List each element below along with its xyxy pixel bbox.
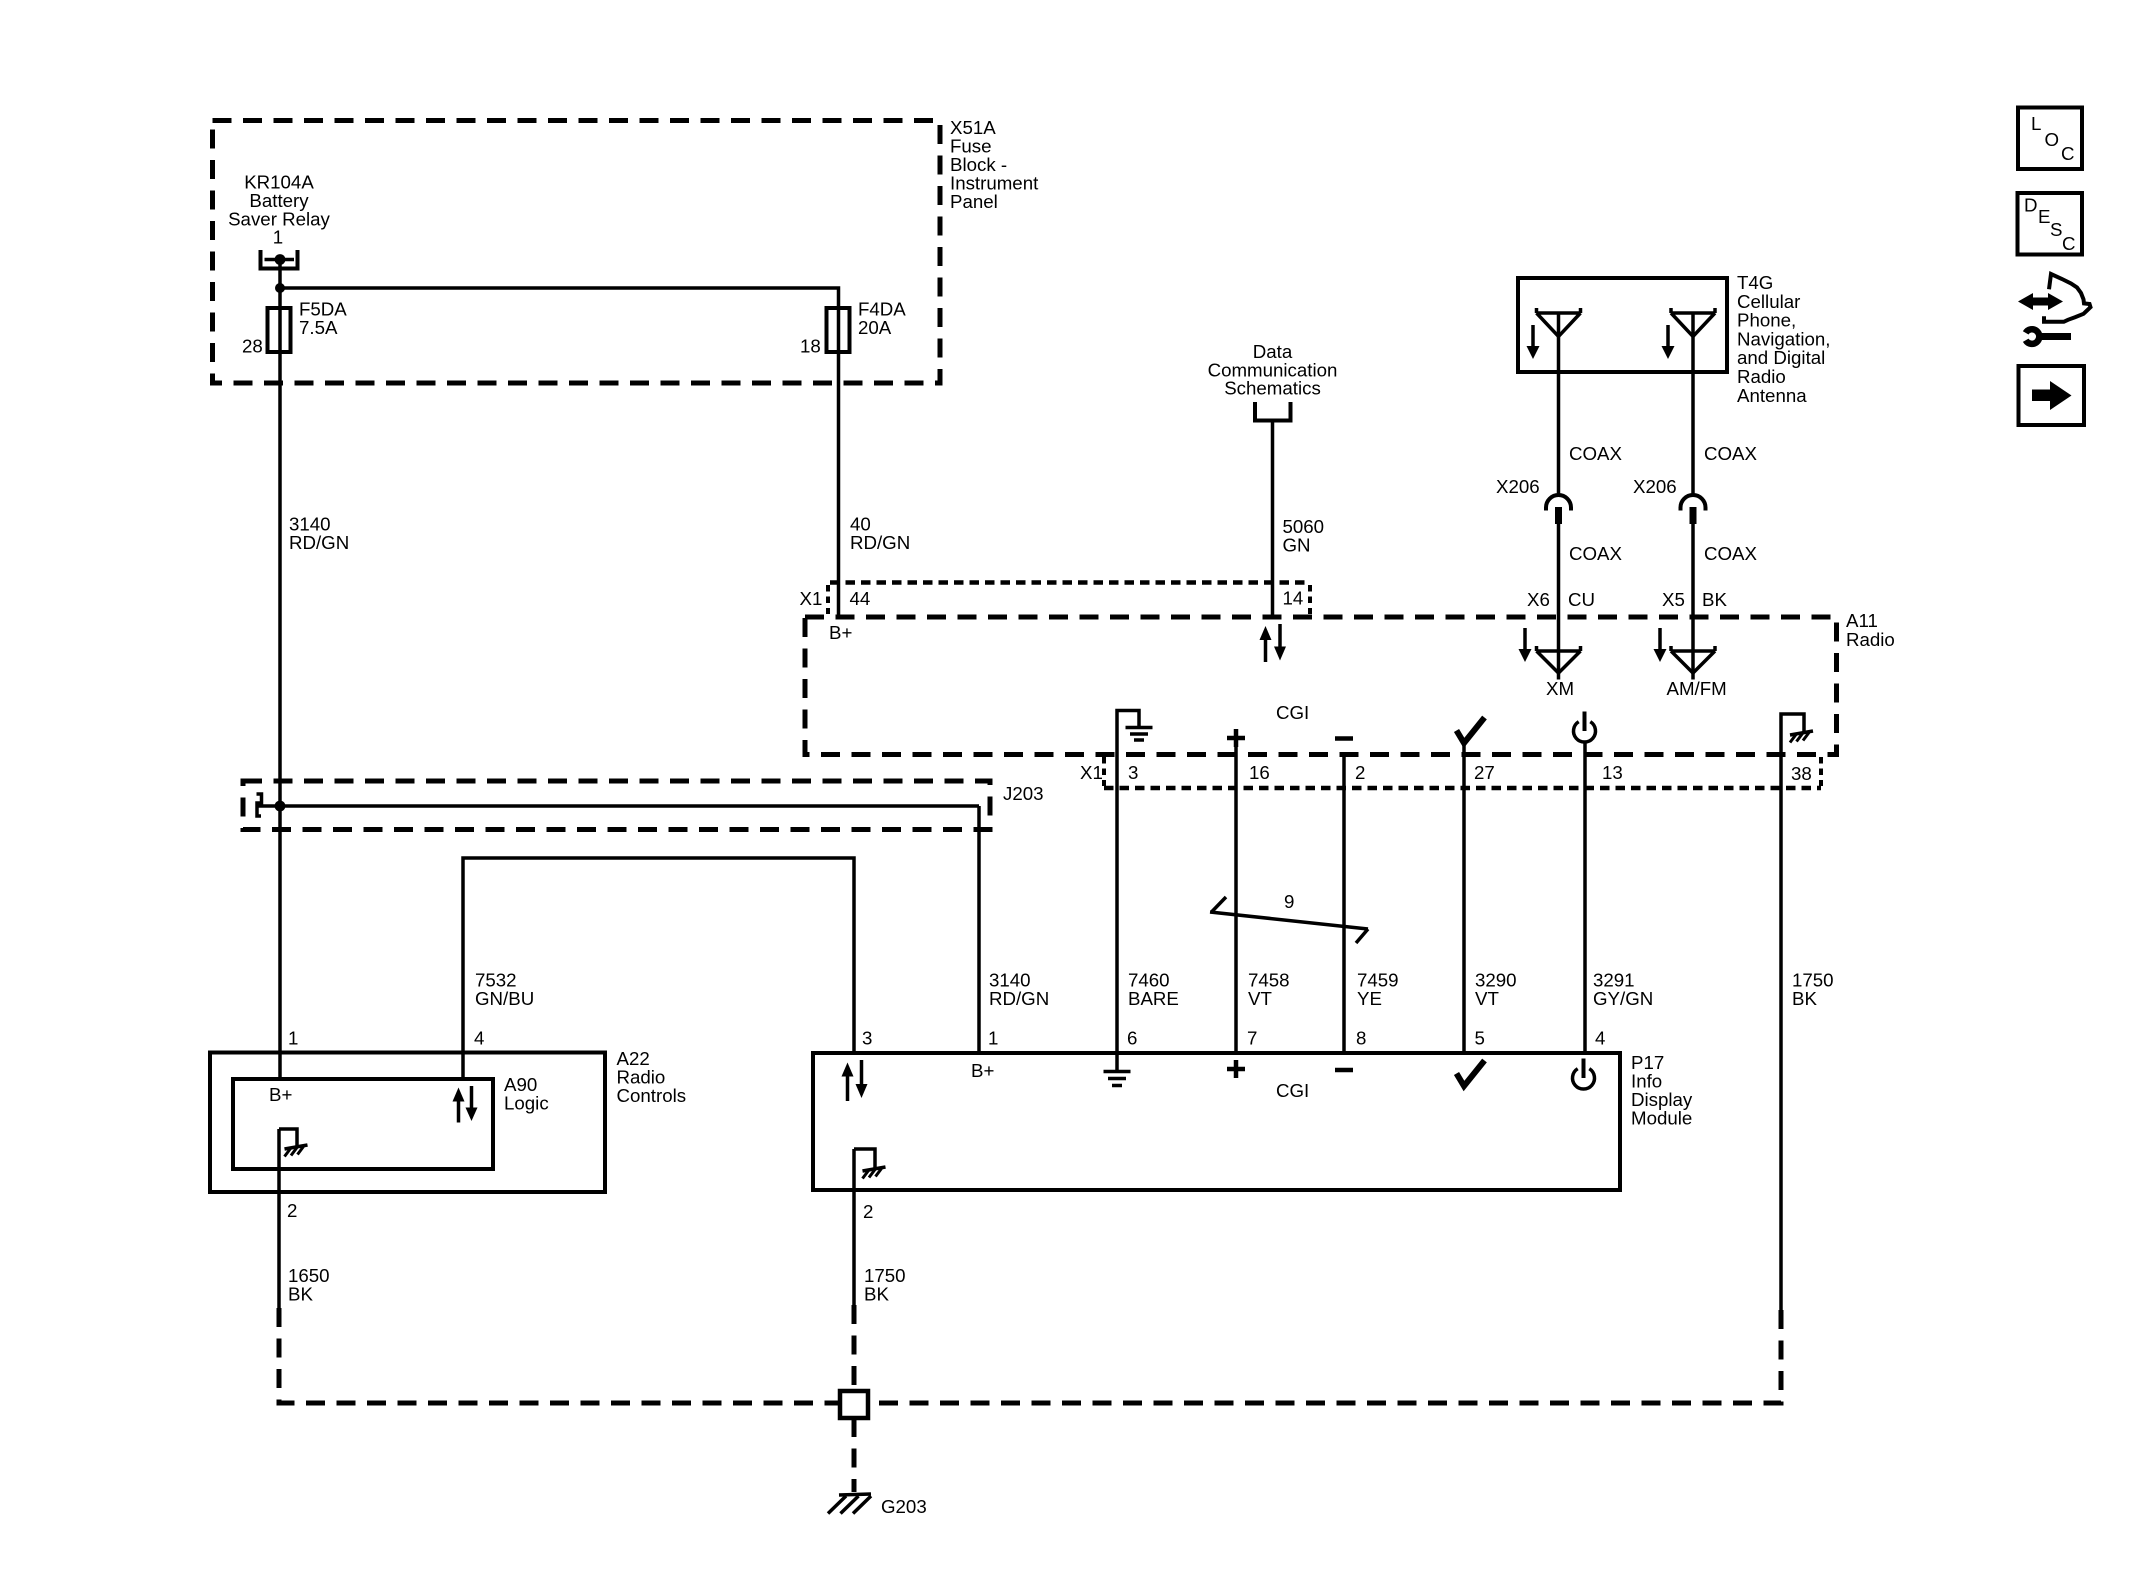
wire 3140 RD/GN from F5DA down to J203	[278, 352, 282, 806]
label X5 BK	[1662, 589, 1727, 610]
label 7458 VT	[1248, 969, 1290, 1009]
svg-text:X206: X206	[1633, 476, 1677, 497]
coax wire below X206 left	[1557, 524, 1561, 617]
harness marker 9	[1210, 897, 1368, 943]
svg-text:1: 1	[988, 1028, 998, 1049]
svg-text:44: 44	[850, 588, 871, 609]
coax wire AM/FM antenna	[1691, 313, 1695, 494]
svg-text:18: 18	[800, 336, 821, 357]
label 1750 BK (center)	[864, 1265, 906, 1305]
svg-text:Controls: Controls	[617, 1085, 687, 1106]
wire 7460 BARE (radio 3 to P17 6)	[1115, 752, 1119, 1053]
svg-text:X6: X6	[1527, 589, 1550, 610]
label 7460 BARE	[1128, 969, 1179, 1009]
svg-text:7.5A: 7.5A	[299, 317, 338, 338]
down arrow (radio AM/FM input)	[1654, 628, 1667, 662]
dashed wire 1750 BK right leg to G203	[868, 1310, 1781, 1403]
connector X206 (right)	[1681, 495, 1706, 524]
down arrow (radio XM input)	[1519, 628, 1532, 662]
label 7532 GN/BU	[475, 969, 534, 1009]
connector X206 (left)	[1546, 495, 1571, 524]
ground symbol (P17 bottom)	[854, 1149, 886, 1179]
svg-text:6: 6	[1127, 1028, 1137, 1049]
down arrow (T4G left)	[1527, 325, 1540, 359]
wire 5060 GN to radio pin 14	[1271, 421, 1275, 618]
svg-text:Schematics: Schematics	[1224, 378, 1321, 399]
svg-text:B+: B+	[971, 1060, 994, 1081]
junction node J203	[275, 801, 286, 812]
check symbol (radio pin 27)	[1457, 718, 1485, 744]
wire J203 horizontal	[256, 804, 979, 808]
svg-text:XM: XM	[1546, 678, 1574, 699]
junction node	[275, 283, 285, 293]
wire 1750 BK (radio 38 down)	[1779, 752, 1783, 1310]
dashed wire junction square to ground	[852, 1418, 857, 1492]
svg-text:8: 8	[1356, 1028, 1366, 1049]
svg-text:VT: VT	[1248, 988, 1272, 1009]
svg-text:X5: X5	[1662, 589, 1685, 610]
svg-text:BK: BK	[1792, 988, 1817, 1009]
label P17 Info Display Module	[1631, 1052, 1693, 1129]
svg-text:O: O	[2045, 129, 2060, 150]
svg-text:X1: X1	[800, 588, 823, 609]
svg-text:COAX: COAX	[1704, 543, 1757, 564]
svg-text:BK: BK	[1702, 589, 1727, 610]
svg-text:AM/FM: AM/FM	[1667, 678, 1727, 699]
svg-text:20A: 20A	[858, 317, 892, 338]
radio A11 dashed box	[805, 617, 1837, 755]
antenna module T4G box	[1518, 278, 1727, 372]
label 40 RD/GN	[850, 514, 910, 554]
power symbol (radio pin 13)	[1574, 712, 1596, 743]
svg-text:14: 14	[1283, 588, 1304, 609]
svg-text:J203: J203	[1003, 783, 1044, 804]
module A90 Logic box	[233, 1079, 493, 1169]
junction square G203	[840, 1391, 868, 1418]
svg-text:B+: B+	[269, 1084, 292, 1105]
fuse F4DA 20A	[827, 299, 907, 353]
plus symbol (P17 pin 7)	[1227, 1060, 1245, 1078]
svg-text:S: S	[2050, 219, 2062, 240]
serial data up/down arrows (A90)	[453, 1086, 478, 1123]
antenna symbol (XM, inside T4G)	[1537, 308, 1581, 337]
svg-text:1: 1	[288, 1028, 298, 1049]
minus symbol (radio pin 2)	[1335, 736, 1353, 741]
svg-text:RD/GN: RD/GN	[989, 988, 1049, 1009]
svg-text:VT: VT	[1475, 988, 1499, 1009]
ground G203	[828, 1494, 871, 1514]
module A22 Radio Controls box	[210, 1053, 605, 1193]
svg-text:16: 16	[1249, 762, 1270, 783]
module P17 Info Display Module box	[813, 1053, 1620, 1190]
svg-text:Antenna: Antenna	[1737, 385, 1807, 406]
label T4G Cellular Phone, Navigation, and Digital Radio Antenna	[1737, 272, 1831, 406]
wire 7459 YE (radio 2 to P17 8)	[1342, 752, 1346, 1053]
power symbol (P17 pin 4)	[1573, 1059, 1595, 1090]
icon LOC box	[2018, 108, 2082, 170]
fuse F5DA 7.5A	[268, 299, 348, 353]
wire 7532 GN/BU (A90 pin 4 up and over to P17 pin 3)	[463, 858, 854, 1079]
label 1650 BK	[288, 1265, 330, 1305]
wire 1750 BK (P17 ground to pin 2)	[852, 1149, 856, 1305]
svg-text:38: 38	[1791, 763, 1812, 784]
dashed wire 1650 BK to G203	[279, 1308, 840, 1403]
wire 40 RD/GN from F4DA down to radio pin 44	[837, 352, 841, 617]
svg-text:C: C	[2062, 233, 2076, 254]
wire junction across to F4DA	[280, 288, 839, 352]
minus symbol (P17 pin 8)	[1335, 1068, 1353, 1073]
label 3140 RD/GN (to P17 B+)	[989, 969, 1049, 1009]
dashed wire P17 pin 2 to junction square	[852, 1305, 857, 1391]
svg-text:CU: CU	[1568, 589, 1595, 610]
antenna symbol XM (inside radio)	[1537, 617, 1581, 680]
svg-text:3: 3	[862, 1028, 872, 1049]
coax wire below X206 right	[1691, 524, 1695, 617]
label X6 CU	[1527, 589, 1595, 610]
svg-text:4: 4	[1595, 1028, 1605, 1049]
label KR104A Battery Saver Relay	[228, 172, 330, 230]
ground symbol (radio pin 3)	[1117, 711, 1153, 753]
svg-text:A11: A11	[1846, 610, 1878, 631]
splice clip symbol in J203	[257, 794, 262, 816]
svg-text:B+: B+	[829, 622, 852, 643]
label X51A Fuse Block - Instrument Panel	[950, 117, 1039, 212]
antenna symbol (AM/FM, inside T4G)	[1671, 308, 1715, 337]
svg-text:Logic: Logic	[504, 1093, 549, 1114]
check symbol (P17 pin 5)	[1457, 1061, 1485, 1087]
label A90 Logic	[504, 1074, 549, 1114]
wire relay to junction	[278, 260, 282, 289]
svg-text:9: 9	[1284, 891, 1294, 912]
svg-text:7: 7	[1247, 1028, 1257, 1049]
svg-text:3: 3	[1128, 762, 1138, 783]
wire 3140 RD/GN (J203 to A22 pin 1)	[278, 806, 282, 1079]
svg-text:2: 2	[287, 1200, 297, 1221]
svg-text:13: 13	[1602, 762, 1623, 783]
relay KR104A contact symbol	[261, 250, 298, 269]
ground symbol 3-bar (P17 pin 6)	[1104, 1053, 1131, 1086]
svg-text:COAX: COAX	[1704, 443, 1757, 464]
fuse block X51A dashed box	[213, 121, 941, 384]
svg-text:C: C	[2061, 143, 2075, 164]
svg-text:RD/GN: RD/GN	[850, 532, 910, 553]
svg-text:1: 1	[273, 227, 283, 248]
svg-text:CGI: CGI	[1276, 702, 1309, 723]
svg-text:Radio: Radio	[1846, 629, 1895, 650]
serial data up/down arrows (P17)	[842, 1060, 868, 1101]
ground symbol (A90)	[279, 1129, 308, 1157]
connector X1 bottom band of radio	[1104, 757, 1821, 788]
svg-text:Module: Module	[1631, 1108, 1692, 1129]
svg-text:BARE: BARE	[1128, 988, 1179, 1009]
serial data up/down arrows (radio pin 14)	[1260, 624, 1287, 662]
svg-text:G203: G203	[881, 1496, 927, 1517]
svg-text:GY/GN: GY/GN	[1593, 988, 1653, 1009]
svg-text:E: E	[2038, 206, 2050, 227]
svg-text:COAX: COAX	[1569, 443, 1622, 464]
connector X1 top band of radio	[828, 583, 1310, 615]
svg-text:2: 2	[863, 1201, 873, 1222]
svg-text:4: 4	[474, 1028, 484, 1049]
svg-text:BK: BK	[864, 1284, 889, 1305]
svg-text:X206: X206	[1496, 476, 1540, 497]
svg-text:BK: BK	[288, 1284, 313, 1305]
label 3140 RD/GN	[289, 514, 349, 554]
wire 3291 GY/GN (radio 13 to P17 4)	[1583, 742, 1587, 1053]
svg-text:L: L	[2031, 113, 2041, 134]
plus symbol (radio pin 16)	[1227, 729, 1245, 747]
wire 3290 VT (radio 27 to P17 5)	[1462, 743, 1466, 1053]
label 1750 BK (right)	[1792, 969, 1834, 1009]
coax wire XM antenna	[1557, 313, 1561, 494]
ground symbol (radio pin 38)	[1781, 714, 1813, 752]
antenna symbol AM/FM (inside radio)	[1671, 617, 1715, 680]
label A11 Radio	[1846, 610, 1895, 650]
junction J203 dashed box	[243, 781, 990, 830]
svg-text:27: 27	[1474, 762, 1495, 783]
wire 3140 RD/GN (J203 to P17 pin 1)	[977, 806, 981, 1053]
svg-text:Panel: Panel	[950, 191, 998, 212]
svg-text:YE: YE	[1357, 988, 1382, 1009]
label A22 Radio Controls	[617, 1048, 687, 1106]
label 5060 GN	[1283, 516, 1325, 556]
svg-text:5: 5	[1475, 1028, 1485, 1049]
svg-text:2: 2	[1355, 762, 1365, 783]
icon boxed right arrow	[2019, 366, 2085, 425]
label 3291 GY/GN	[1593, 969, 1653, 1009]
svg-text:GN: GN	[1283, 535, 1311, 556]
wire 7458 VT (radio 16 to P17 7)	[1234, 747, 1238, 1053]
wire junction to F5DA	[278, 288, 282, 352]
svg-text:X1: X1	[1080, 762, 1103, 783]
wire 1650 BK (A90 ground to pin 2)	[277, 1129, 281, 1308]
label 7459 YE	[1357, 969, 1399, 1009]
svg-text:D: D	[2024, 195, 2038, 216]
off-page reference bracket	[1255, 402, 1291, 421]
svg-text:GN/BU: GN/BU	[475, 988, 534, 1009]
svg-text:COAX: COAX	[1569, 543, 1622, 564]
svg-text:28: 28	[242, 336, 263, 357]
icon DESC box	[2018, 193, 2083, 255]
label Data Communication Schematics	[1208, 341, 1338, 399]
svg-text:RD/GN: RD/GN	[289, 532, 349, 553]
svg-text:CGI: CGI	[1276, 1080, 1309, 1101]
icon adjust (double arrow, part outline, wrench)	[2018, 274, 2091, 344]
label 3290 VT	[1475, 969, 1517, 1009]
down arrow (T4G right)	[1662, 325, 1675, 359]
